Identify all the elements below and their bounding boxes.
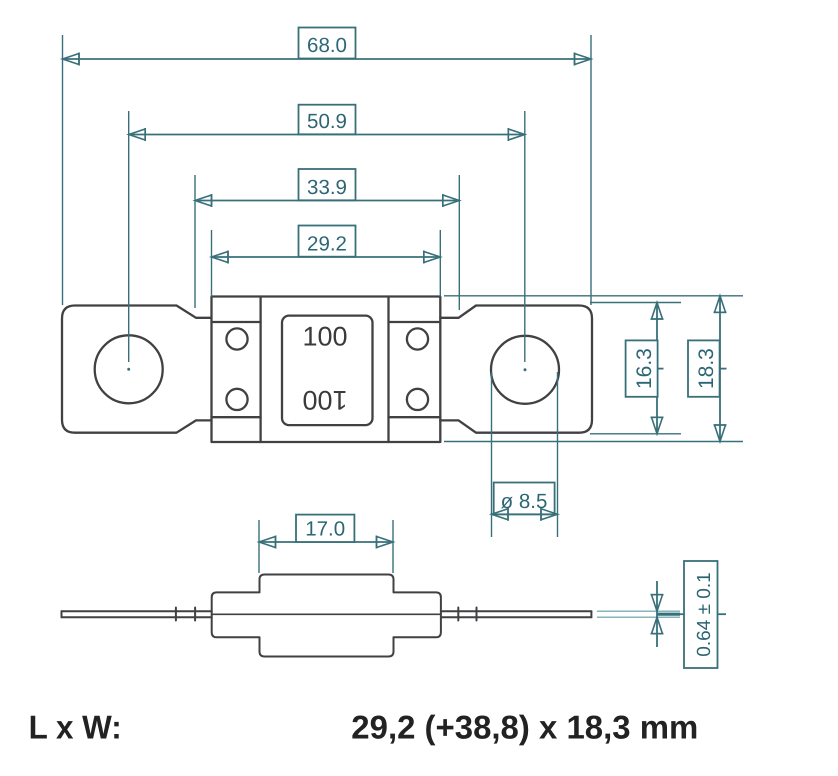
box 0.64 <box>684 561 718 668</box>
left strip bottom edge <box>62 616 212 618</box>
arrow 16.3 up <box>651 303 664 320</box>
svg-text:29,2 (+38,8) x 18,3 mm: 29,2 (+38,8) x 18,3 mm <box>351 708 698 745</box>
ext line 33.9 right <box>458 175 460 310</box>
right strip end cap <box>590 611 592 617</box>
svg-text:0.64 ± 0.1: 0.64 ± 0.1 <box>693 572 714 656</box>
right strip bottom edge <box>441 616 592 618</box>
tick right of 0.64 box <box>718 613 727 615</box>
dim line 50.9 <box>129 134 525 136</box>
strip tick 3 <box>457 608 459 621</box>
svg-text:50.9: 50.9 <box>307 110 347 133</box>
arrow 18.3 up <box>714 296 727 313</box>
box dia8.5 <box>494 483 555 515</box>
arrow 17.0 left <box>259 536 276 549</box>
ext line 18.3 top <box>444 295 743 297</box>
svg-text:18.3: 18.3 <box>694 348 718 389</box>
ext line 68.0 right <box>590 35 592 305</box>
arrow 0.64 bottom <box>651 617 664 634</box>
svg-text:68.0: 68.0 <box>307 34 347 57</box>
dim line dia8.5 <box>492 513 558 515</box>
leader 0.64 thick <box>657 613 680 616</box>
right cap upper line <box>389 321 441 323</box>
right cap lower line <box>389 416 441 418</box>
arrow 68.0 right <box>575 53 592 66</box>
body divider left <box>259 297 261 443</box>
svg-text:29.2: 29.2 <box>307 232 347 255</box>
arrow 17.0 right <box>377 536 394 549</box>
ext line 29.2 left <box>211 230 213 297</box>
dim line 0.64 vertical <box>656 581 658 647</box>
svg-text:100: 100 <box>302 385 347 415</box>
rivet hole top-left <box>226 328 247 349</box>
arrow 33.9 right <box>443 194 460 207</box>
ext line 18.3 bottom <box>444 441 743 443</box>
ext line 68.0 left <box>62 35 64 305</box>
dim line 29.2 <box>212 256 441 258</box>
svg-text:16.3: 16.3 <box>632 348 656 389</box>
box 18.3 <box>688 340 720 396</box>
tick mid 16.3 <box>657 368 664 370</box>
left strip end cap <box>61 611 63 617</box>
ext line 17.0 right <box>392 520 394 573</box>
arrow dia8.5 left <box>492 508 509 521</box>
arrow 29.2 left <box>212 251 229 264</box>
right terminal tab <box>440 306 592 433</box>
right tab hole <box>491 336 559 404</box>
arrow dia8.5 right <box>541 508 558 521</box>
side body centerline <box>212 613 441 615</box>
tick mid 18.3 <box>720 368 727 370</box>
right strip top edge <box>441 610 592 612</box>
arrow 29.2 right <box>424 251 441 264</box>
box 33.9 <box>299 169 356 200</box>
arrow 16.3 down <box>651 417 664 434</box>
svg-text:17.0: 17.0 <box>305 517 345 540</box>
box 16.3 <box>626 340 658 396</box>
arrow 50.9 left <box>129 128 146 141</box>
svg-text:ø 8.5: ø 8.5 <box>501 490 548 513</box>
fuse body outline <box>212 297 441 443</box>
body divider right <box>387 297 389 443</box>
strip tick 4 <box>476 608 478 621</box>
box 50.9 <box>299 105 356 135</box>
rivet hole bottom-right <box>407 389 428 410</box>
strip tick 2 <box>194 608 196 621</box>
svg-text:33.9: 33.9 <box>307 176 347 199</box>
dim line 33.9 <box>195 200 459 202</box>
rivet hole bottom-left <box>226 389 247 410</box>
left cap lower line <box>212 416 261 418</box>
ext line 50.9 right <box>524 111 526 362</box>
svg-text:L x W:: L x W: <box>29 708 122 745</box>
ext line 16.3 top <box>590 302 681 304</box>
dim line 68.0 <box>63 58 592 60</box>
arrow 0.64 top <box>651 595 664 612</box>
side body profile <box>212 575 441 657</box>
svg-text:100: 100 <box>302 322 347 352</box>
arrow 33.9 left <box>195 194 212 207</box>
leader 0.64 <box>680 613 684 615</box>
box 68.0 <box>299 28 356 59</box>
strip ext top line <box>597 610 680 612</box>
ext line dia8.5 left <box>491 372 493 537</box>
rivet hole top-right <box>407 328 428 349</box>
rating window <box>282 316 373 426</box>
arrow 50.9 right <box>508 128 525 141</box>
arrow 68.0 left <box>63 53 80 66</box>
left cap upper line <box>212 321 261 323</box>
arrow 18.3 down <box>714 425 727 442</box>
dim line 17.0 <box>259 541 393 543</box>
strip tick 1 <box>175 608 177 621</box>
left strip top edge <box>62 610 212 612</box>
ext line 16.3 bottom <box>590 433 681 435</box>
hole center mark right <box>524 368 527 371</box>
ext line 17.0 left <box>258 520 260 573</box>
ext line 29.2 right <box>439 230 441 297</box>
dim line 16.3 <box>656 303 658 434</box>
ext line 33.9 left <box>194 175 196 308</box>
box 29.2 <box>299 226 356 257</box>
left tab hole <box>95 335 163 403</box>
hole center mark left <box>127 368 130 371</box>
strip ext bottom line <box>597 616 680 618</box>
dim line 18.3 <box>719 296 721 442</box>
box 17.0 <box>296 515 354 542</box>
ext line dia8.5 right <box>557 372 559 537</box>
left terminal tab <box>62 306 212 433</box>
ext line 50.9 left <box>128 111 130 362</box>
